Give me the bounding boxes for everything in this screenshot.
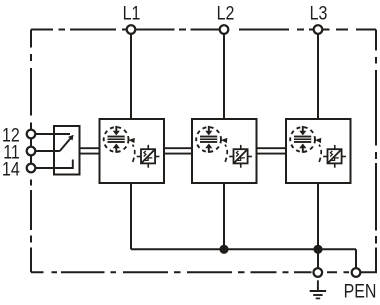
wire PEN terminal to enclosure corner	[361, 248, 377, 273]
spark gap electrode stack module 3	[294, 136, 311, 143]
spark gap symbol module 2 (dashed circle)	[196, 127, 221, 152]
wire bus to PEN terminal	[355, 249, 357, 268]
varistor/disconnector symbol module 2	[229, 145, 252, 168]
SPD module 2 box	[192, 119, 257, 183]
spark gap bottom arrow module 1	[113, 144, 120, 153]
terminal earth	[314, 268, 323, 277]
SPD module 3 box	[286, 119, 351, 183]
remote signalling contact box	[54, 126, 80, 175]
wire module 1 to bus	[130, 183, 132, 249]
spark gap symbol module 3 (dashed circle)	[290, 127, 315, 152]
earth (ground) symbol	[310, 280, 326, 298]
junction dot L2/bus	[219, 245, 228, 254]
wire L3 drop	[317, 34, 319, 119]
changeover contact lever	[60, 135, 74, 151]
bottom bus wire	[131, 248, 356, 250]
terminal 11	[27, 147, 36, 156]
spark gap electrode stack module 2	[200, 136, 217, 143]
SPD module 1 box	[100, 119, 165, 183]
svg-text:PEN: PEN	[344, 280, 377, 302]
trigger arrow module 2 (dashed curve into spark gap)	[221, 138, 227, 162]
series double-link module 2 to module 3	[257, 148, 287, 153]
terminal PEN	[352, 268, 361, 277]
enclosure border right (dash-dot)	[375, 30, 377, 273]
spark gap bottom arrow module 2	[205, 144, 212, 153]
trigger arrow module 3 (dashed curve into spark gap)	[315, 138, 321, 162]
svg-text:14: 14	[2, 158, 20, 180]
wire module 3 to bus	[317, 183, 319, 249]
trigger arrow module 1 (dashed curve into spark gap)	[129, 138, 135, 162]
wire terminal 14 to contact (with stub)	[35, 160, 73, 169]
series double-link module 1 to module 2	[164, 148, 192, 153]
varistor/disconnector symbol module 1	[137, 145, 160, 168]
svg-text:L2: L2	[217, 2, 235, 24]
spark gap bottom arrow module 3	[299, 144, 306, 153]
terminal L3	[314, 25, 323, 34]
terminal L2	[220, 25, 229, 34]
svg-text:L3: L3	[310, 2, 328, 24]
spark gap top arrow module 3	[299, 126, 306, 135]
series double-link remote contact to module 1	[80, 148, 100, 153]
spark gap top arrow module 2	[205, 126, 212, 135]
spark gap electrode stack module 1	[108, 136, 125, 143]
enclosure border bottom (dash-dot)	[31, 271, 349, 273]
junction dot L3/bus	[313, 245, 322, 254]
terminal L1	[127, 25, 136, 34]
enclosure border top (dash-dot)	[31, 29, 376, 31]
wire terminal 12 to contact	[35, 133, 70, 135]
terminal 12	[27, 130, 36, 139]
wire L2 drop	[223, 34, 225, 119]
spark gap top arrow module 1	[113, 126, 120, 135]
enclosure border left (dash-dot)	[30, 30, 32, 273]
wire L1 drop	[130, 34, 132, 119]
wire junction to earth terminal	[317, 249, 319, 268]
svg-text:L1: L1	[123, 2, 141, 24]
terminal 14	[27, 164, 36, 173]
varistor/disconnector symbol module 3	[323, 145, 346, 168]
wire module 2 to bus	[223, 183, 225, 249]
spark gap symbol module 1 (dashed circle)	[104, 127, 129, 152]
wire terminal 11 to contact	[35, 150, 60, 152]
